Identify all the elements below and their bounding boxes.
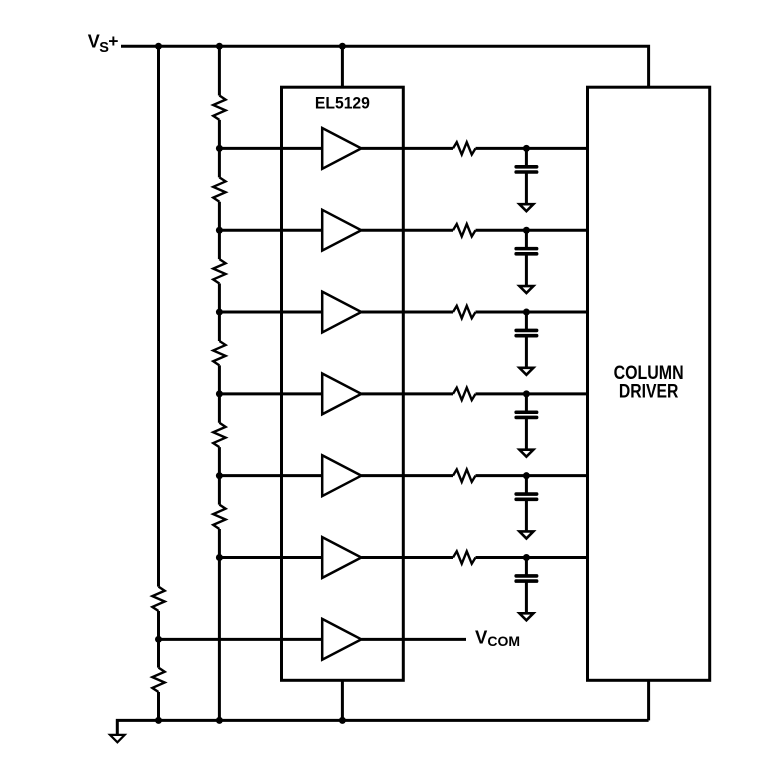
svg-text:VS+: VS+ <box>88 31 119 56</box>
svg-text:DRIVER: DRIVER <box>619 382 679 403</box>
svg-text:VCOM: VCOM <box>475 627 520 649</box>
svg-text:EL5129: EL5129 <box>315 93 370 112</box>
